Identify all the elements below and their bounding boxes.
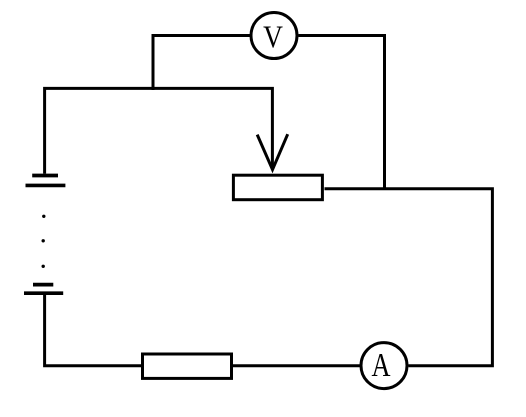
rheostat (potentiometer) body — [233, 175, 322, 200]
battery ellipsis dot 1 — [42, 215, 45, 218]
battery B1 cell n: long positive plate — [24, 291, 63, 295]
wire: rheostat right terminal to right vertical rail down to ammeter right lead — [325, 189, 493, 366]
battery ellipsis dot 3 — [42, 265, 45, 268]
battery B1 cell n: short negative plate — [33, 283, 53, 287]
wiper arrowhead on rheostat — [257, 134, 288, 169]
ammeter A body — [361, 343, 407, 389]
wire: voltmeter right lead and vertical down to rheostat right terminal — [299, 36, 385, 189]
battery ellipsis dot 2 — [42, 239, 45, 242]
battery B1 cell 1: short negative plate — [32, 174, 58, 178]
wire: battery positive lead up, top horizontal run, wiper arrow shaft — [45, 88, 273, 173]
voltmeter V body — [251, 13, 297, 59]
svg-text:V: V — [263, 19, 283, 54]
resistor R body — [143, 354, 232, 378]
wire: voltmeter left branch (tee at top run down to voltmeter) — [153, 36, 250, 91]
wire: resistor right terminal to ammeter left terminal — [233, 364, 361, 367]
wire: battery negative lead down and bottom run to resistor left terminal — [45, 295, 142, 366]
svg-text:A: A — [372, 347, 391, 384]
battery B1 cell 1: long positive plate — [26, 184, 66, 188]
